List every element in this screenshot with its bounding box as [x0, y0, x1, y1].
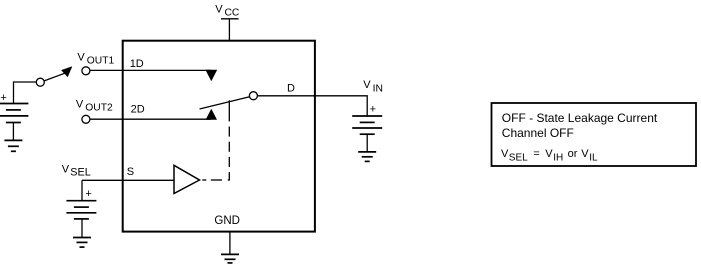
- note box: [492, 103, 697, 166]
- svg-text:OUT1: OUT1: [87, 56, 115, 67]
- dashed control line: [202, 100, 229, 180]
- svg-text:V: V: [76, 98, 84, 110]
- svg-text:+: +: [0, 92, 6, 104]
- label VOUT2: [76, 98, 113, 113]
- wire VCC stem: [228, 19, 230, 41]
- wire VSEL to battery B3: [81, 180, 83, 200]
- VCC pin bar: [221, 18, 239, 20]
- ground (battery B3): [73, 238, 91, 248]
- wire 1D: [90, 69, 211, 71]
- svg-text:V: V: [545, 148, 553, 160]
- svg-text:GND: GND: [214, 215, 240, 227]
- svg-text:S: S: [127, 166, 134, 178]
- svg-text:1D: 1D: [130, 58, 144, 70]
- svg-text:V: V: [215, 3, 223, 15]
- svg-text:V: V: [363, 79, 371, 91]
- svg-text:V: V: [77, 51, 85, 63]
- svg-text:D: D: [287, 82, 295, 94]
- svg-text:Channel OFF: Channel OFF: [502, 126, 574, 140]
- svg-text:=: =: [533, 148, 539, 160]
- svg-text:SEL: SEL: [70, 166, 90, 178]
- ground (battery B1): [4, 140, 22, 151]
- svg-text:or: or: [568, 148, 578, 160]
- svg-text:CC: CC: [225, 8, 240, 19]
- label VCC: [215, 3, 240, 18]
- svg-text:IH: IH: [553, 152, 563, 163]
- svg-text:IL: IL: [589, 152, 598, 163]
- switch SW1 arm: [44, 73, 64, 81]
- IC boundary box: [123, 41, 315, 232]
- wire S: [82, 179, 174, 181]
- label VSEL: [62, 163, 91, 178]
- terminal VOUT1: [82, 67, 90, 75]
- wire GND stem: [229, 232, 231, 255]
- svg-text:SEL: SEL: [509, 152, 528, 163]
- battery B1 (left source): [0, 104, 28, 141]
- svg-text:OUT2: OUT2: [85, 103, 113, 114]
- throw contact 2D arrow: [206, 109, 217, 120]
- svg-text:+: +: [370, 103, 376, 115]
- internal switch pole circle: [249, 92, 257, 100]
- svg-text:OFF - State Leakage Current: OFF - State Leakage Current: [502, 111, 658, 125]
- ground (battery B2): [358, 152, 376, 162]
- throw contact 1D arrow: [205, 70, 217, 81]
- svg-text:+: +: [85, 188, 91, 200]
- svg-text:2D: 2D: [131, 103, 145, 115]
- ground (GND pin): [221, 254, 239, 263]
- wire battery B1 to switch SW1: [14, 82, 38, 103]
- label VIN: [363, 79, 383, 94]
- note text line 3 (VSEL = VIH or VIL): [501, 148, 598, 163]
- switch SW1 pivot: [36, 78, 44, 86]
- svg-text:V: V: [581, 148, 589, 160]
- wire 2D: [90, 118, 211, 120]
- wire D to VIN: [257, 96, 367, 116]
- buffer U1 (select driver): [174, 165, 200, 193]
- switch SW1 arrowhead: [61, 67, 72, 77]
- terminal VOUT2: [82, 115, 90, 123]
- internal switch arm: [200, 97, 250, 109]
- svg-text:V: V: [62, 163, 70, 175]
- label VOUT1: [77, 51, 114, 66]
- svg-text:V: V: [501, 148, 509, 160]
- battery B2 (VIN source): [352, 116, 382, 152]
- battery B3 (VSEL source): [66, 201, 96, 238]
- svg-text:IN: IN: [373, 83, 383, 94]
